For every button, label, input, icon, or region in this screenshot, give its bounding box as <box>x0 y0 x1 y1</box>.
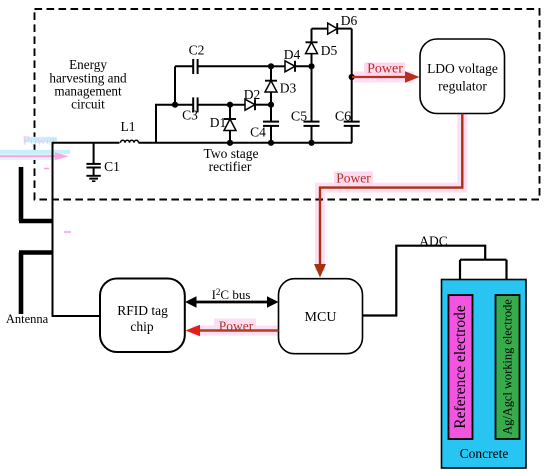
node C5 bottom <box>308 140 314 146</box>
main rail wire left of L1 <box>52 142 120 144</box>
MCU box <box>279 279 363 354</box>
svg-text:C4: C4 <box>250 125 266 140</box>
svg-text:D3: D3 <box>280 81 297 96</box>
svg-text:Reference electrode: Reference electrode <box>452 305 469 429</box>
wire node A to D4 <box>271 65 285 67</box>
tiny pink mark 1 <box>44 168 49 170</box>
glow of power line LDO to MCU <box>320 114 462 271</box>
svg-text:Power: Power <box>219 319 254 334</box>
power arrow MCU to RFID <box>199 329 279 331</box>
ground <box>86 176 100 181</box>
node D1 bottom <box>227 140 233 146</box>
RFID tag chip box <box>100 279 185 353</box>
glow of power arrow to LDO <box>354 63 414 78</box>
svg-text:circuit: circuit <box>71 97 105 112</box>
wire into C2 <box>175 65 193 67</box>
diode D5 <box>306 29 338 67</box>
Reference electrode <box>449 295 473 439</box>
I2C bus double arrow <box>185 287 279 308</box>
diode D4 <box>284 47 312 72</box>
svg-text:Ag/Agcl working electrode: Ag/Agcl working electrode <box>501 299 515 435</box>
svg-text:Power: Power <box>367 62 403 77</box>
capacitor C5 <box>291 66 320 143</box>
svg-text:D1: D1 <box>210 115 227 130</box>
svg-text:Concrete: Concrete <box>460 446 509 461</box>
svg-text:D5: D5 <box>321 43 338 58</box>
ADC wire MCU to electrodes <box>363 246 507 316</box>
node power tap <box>349 74 355 80</box>
svg-text:L1: L1 <box>121 119 136 134</box>
antenna feed wire to RFID chip <box>53 142 101 316</box>
svg-text:C5: C5 <box>291 110 307 125</box>
wire C2 to node A <box>198 65 271 67</box>
capacitor C4 <box>250 105 279 143</box>
label: Two stage rectifier <box>204 146 259 174</box>
svg-text:regulator: regulator <box>438 79 487 94</box>
svg-text:C6: C6 <box>335 110 351 125</box>
svg-text:D6: D6 <box>341 13 358 28</box>
right rail with capacitor C6 <box>335 29 360 143</box>
wire C3 to D2 <box>198 104 245 106</box>
diode D6 <box>312 13 358 34</box>
node top of D3 <box>268 63 274 69</box>
svg-text:C1: C1 <box>104 159 120 174</box>
capacitor C2 <box>189 43 205 75</box>
capacitor C1 <box>86 143 119 176</box>
faint cyan band artifact <box>0 150 70 154</box>
svg-text:C3: C3 <box>182 108 198 123</box>
diode D3 <box>265 66 296 104</box>
LDO voltage regulator box <box>420 39 505 114</box>
node C4 bottom <box>268 140 274 146</box>
diode D1 <box>210 105 236 143</box>
svg-text:D4: D4 <box>284 47 301 62</box>
svg-text:chip: chip <box>130 319 153 334</box>
antenna upper arm <box>19 167 53 221</box>
node D1 top <box>227 102 233 108</box>
faint cyan band behind ghost label <box>24 137 58 143</box>
tiny pink mark 2 <box>64 231 71 233</box>
diode D2 <box>244 87 271 110</box>
svg-text:RFID tag: RFID tag <box>117 303 168 318</box>
power line LDO to MCU <box>320 114 462 265</box>
antenna lower arm <box>19 253 53 315</box>
riser wire from rail to C3 row <box>156 105 193 143</box>
Ag/Agcl working electrode <box>496 295 520 439</box>
svg-text:C2: C2 <box>189 43 205 58</box>
faint pink arrow artifact <box>0 155 55 157</box>
node at C3/C2 branch <box>172 102 178 108</box>
branch wire up to C2 row <box>174 66 176 104</box>
svg-text:D2: D2 <box>244 87 261 102</box>
capacitor C3 <box>182 97 198 122</box>
main/bottom rail wire right of L1 <box>139 142 353 144</box>
dashed boundary of energy harvesting block <box>35 9 540 200</box>
Concrete box <box>442 280 527 469</box>
svg-text:ADC: ADC <box>419 234 448 249</box>
svg-text:Antenna: Antenna <box>6 312 49 326</box>
svg-text:LDO voltage: LDO voltage <box>427 61 498 76</box>
svg-text:Power: Power <box>336 171 371 186</box>
glow of power arrow MCU to RFID <box>192 319 279 333</box>
svg-text:rectifier: rectifier <box>209 159 252 174</box>
svg-text:MCU: MCU <box>305 310 337 325</box>
node C4/D3/D2 <box>268 102 274 108</box>
node D4/D5/C5 <box>308 63 314 69</box>
power arrow to LDO <box>352 76 406 78</box>
label: Energy harvesting and management circuit <box>49 57 127 112</box>
inductor L1 <box>121 140 139 143</box>
